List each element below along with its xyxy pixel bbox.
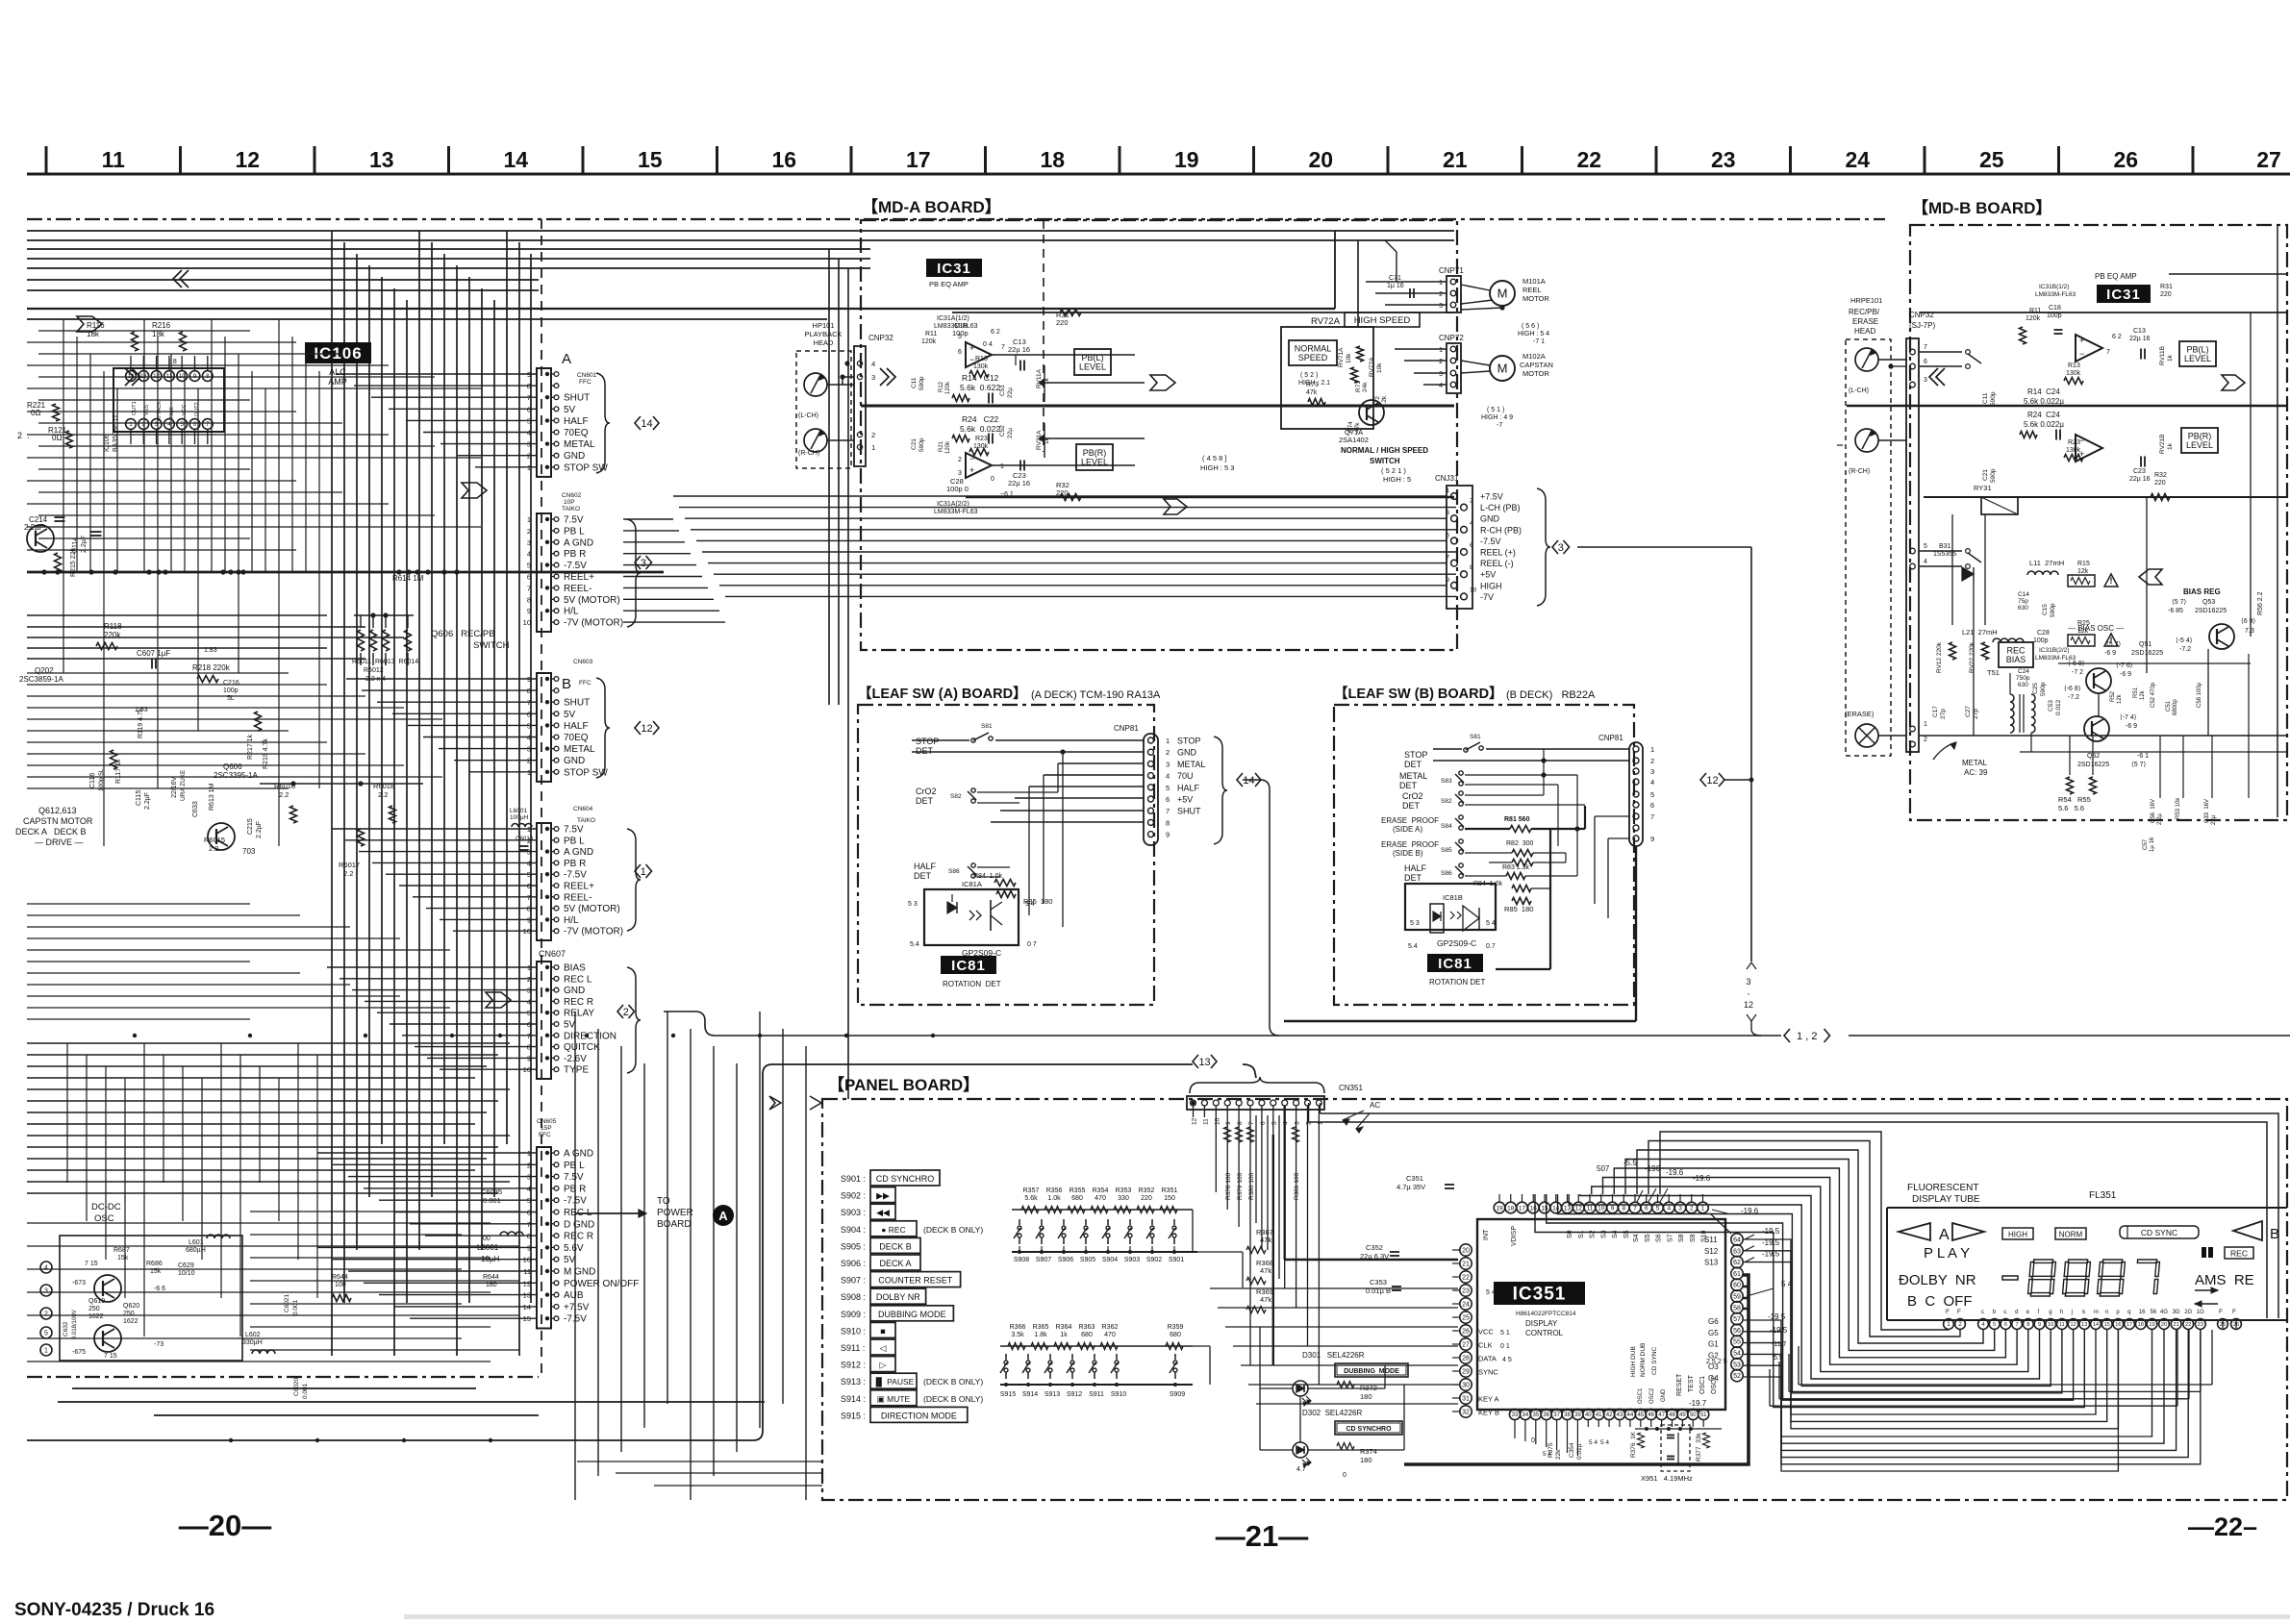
svg-text:47: 47 xyxy=(1658,1412,1665,1418)
svg-text:R6012: R6012 xyxy=(364,667,384,674)
svg-text:!: ! xyxy=(2110,576,2113,586)
svg-text:7: 7 xyxy=(1446,555,1449,562)
wires CNP71/CNP72 feeders xyxy=(1334,231,1336,309)
svg-text:5.6k 0.622: 5.6k 0.622 xyxy=(960,383,1000,392)
wires leaf A routing xyxy=(1058,762,1144,764)
svg-text:R376 1K: R376 1K xyxy=(1630,1431,1637,1458)
resistor row 2 R366..R359 xyxy=(1000,1345,1193,1347)
svg-text:-675: -675 xyxy=(72,1349,86,1356)
svg-text:2 .: 2 . xyxy=(17,431,30,440)
wire nest from right column pins 64-62 xyxy=(1744,1239,2096,1414)
svg-text:5.4: 5.4 xyxy=(910,941,919,948)
svg-text:C351: C351 xyxy=(1406,1174,1423,1183)
svg-text:GND: GND xyxy=(1480,514,1500,524)
svg-text:R12: R12 xyxy=(939,381,944,392)
svg-text:C18: C18 xyxy=(2049,305,2061,312)
svg-text:ĐOLBY NR: ĐOLBY NR xyxy=(1899,1272,1976,1288)
svg-text:( 5 1 ): ( 5 1 ) xyxy=(1487,407,1504,413)
svg-text:R614 1M: R614 1M xyxy=(392,574,424,583)
svg-text:AUB: AUB xyxy=(564,1290,584,1301)
svg-text:3: 3 xyxy=(1295,1121,1301,1125)
svg-text:M101A: M101A xyxy=(1522,277,1546,286)
svg-text:1:83: 1:83 xyxy=(204,647,217,654)
LED D301 xyxy=(1293,1381,1308,1396)
svg-text:2: 2 xyxy=(1439,291,1443,298)
wire bus top-left horizontals xyxy=(27,230,1454,232)
svg-text:S82: S82 xyxy=(1441,798,1452,805)
svg-text:-19.6: -19.6 xyxy=(1666,1168,1684,1177)
svg-text:7 15: 7 15 xyxy=(104,1353,117,1360)
svg-text:(R-CH): (R-CH) xyxy=(1849,468,1870,475)
svg-text:22µ 16: 22µ 16 xyxy=(1008,479,1030,487)
svg-text:R21: R21 xyxy=(939,440,944,452)
svg-text:22: 22 xyxy=(1462,1275,1470,1282)
svg-text:DOLBY NR: DOLBY NR xyxy=(876,1292,920,1302)
box PB(R) LEVEL xyxy=(1076,444,1113,470)
svg-text:F: F xyxy=(1957,1309,1961,1315)
svg-text:-2.6V: -2.6V xyxy=(564,1054,587,1064)
wire mesh upper-left verticals xyxy=(63,319,64,673)
svg-text:-7V: -7V xyxy=(1480,592,1494,602)
svg-text:BIAS REG: BIAS REG xyxy=(2183,587,2221,596)
svg-text:HIGH SPEED: HIGH SPEED xyxy=(1354,315,1411,326)
svg-text:RV21B: RV21B xyxy=(2159,435,2166,454)
svg-text:R377 33k: R377 33k xyxy=(1696,1433,1702,1462)
svg-text:F: F xyxy=(1946,1309,1950,1315)
svg-text:7.3: 7.3 xyxy=(2245,628,2254,635)
svg-text:590p: 590p xyxy=(1990,391,1997,406)
svg-text:HIGH : 5 3: HIGH : 5 3 xyxy=(1200,463,1234,472)
svg-text:14: 14 xyxy=(1552,1205,1560,1212)
svg-text:S81: S81 xyxy=(1470,734,1481,740)
svg-text:S85: S85 xyxy=(1441,847,1452,854)
svg-text:590p: 590p xyxy=(1990,468,1997,483)
signal arrow double right xyxy=(125,368,134,386)
heavy mid rail xyxy=(861,405,1454,408)
svg-text:M GND: M GND xyxy=(564,1267,595,1278)
svg-text:25: 25 xyxy=(1979,147,2004,172)
svg-text:5V: 5V xyxy=(564,1020,576,1031)
svg-text:IC81A: IC81A xyxy=(962,880,982,888)
svg-text:RELAY: RELAY xyxy=(564,1009,594,1019)
svg-text:BIAS: BIAS xyxy=(2006,655,2026,664)
svg-text:R14 C12: R14 C12 xyxy=(962,373,999,383)
svg-text:G6: G6 xyxy=(1708,1317,1719,1326)
svg-text:100p: 100p xyxy=(2033,637,2049,644)
switch row 1 S908..S901 xyxy=(1019,1219,1020,1225)
svg-text:14: 14 xyxy=(641,418,652,430)
op-amp IC351 tag xyxy=(1494,1282,1585,1305)
svg-text:14: 14 xyxy=(503,147,528,172)
svg-text:R11: R11 xyxy=(925,331,937,337)
svg-text:S914: S914 xyxy=(1022,1391,1038,1398)
svg-text:10/10: 10/10 xyxy=(178,1270,195,1277)
wire node12 joins collector xyxy=(1724,779,1751,781)
svg-text:,: , xyxy=(1748,987,1750,996)
svg-text:2.2: 2.2 xyxy=(209,844,218,853)
svg-text:( 4 5 8 ]: ( 4 5 8 ] xyxy=(1202,454,1226,462)
svg-text:10: 10 xyxy=(1470,587,1477,593)
svg-text:1622: 1622 xyxy=(123,1318,138,1325)
svg-text:22µ 6.3V: 22µ 6.3V xyxy=(1360,1252,1389,1261)
svg-text:IC81: IC81 xyxy=(951,958,986,974)
box PB(R) LEVEL (MD-B) xyxy=(2181,428,2218,453)
svg-text:GND: GND xyxy=(564,986,585,996)
svg-text:CNP32: CNP32 xyxy=(868,334,893,342)
svg-text:4: 4 xyxy=(527,550,531,559)
svg-text:S7: S7 xyxy=(1667,1234,1673,1242)
svg-text:R119 4.7k: R119 4.7k xyxy=(138,708,144,738)
svg-text:48: 48 xyxy=(1669,1412,1675,1418)
svg-text:RV72A: RV72A xyxy=(1369,357,1375,377)
svg-text:FFC: FFC xyxy=(579,680,591,687)
svg-text:R51: R51 xyxy=(2133,687,2139,698)
svg-text:40: 40 xyxy=(1585,1412,1592,1418)
svg-text:G1: G1 xyxy=(1708,1340,1719,1349)
svg-text:3: 3 xyxy=(1650,767,1654,776)
svg-text:0 4: 0 4 xyxy=(983,341,993,348)
svg-text:C632: C632 xyxy=(63,1321,69,1337)
svg-text:35: 35 xyxy=(1532,1412,1539,1418)
svg-text:7: 7 xyxy=(2016,1322,2019,1328)
svg-text:R362: R362 xyxy=(1102,1324,1119,1331)
svg-text:2: 2 xyxy=(871,431,875,439)
svg-text:DUBBING MODE: DUBBING MODE xyxy=(1344,1368,1399,1375)
svg-text:S909 :: S909 : xyxy=(841,1310,866,1319)
svg-text:S2: S2 xyxy=(1590,1230,1597,1238)
svg-text:C27: C27 xyxy=(1965,706,1972,717)
svg-text:R378 100: R378 100 xyxy=(1225,1172,1232,1200)
svg-text:120k: 120k xyxy=(921,338,937,345)
svg-text:C11: C11 xyxy=(911,377,918,388)
svg-text:R359: R359 xyxy=(1168,1324,1184,1331)
svg-text:12: 12 xyxy=(1744,1000,1753,1010)
wire display pins baseline xyxy=(1886,1319,1888,1321)
wire nest upper signal lines xyxy=(1637,1150,1983,1343)
svg-text:◁: ◁ xyxy=(880,1343,887,1353)
signal arrow out PB(L) B xyxy=(2222,375,2245,390)
svg-text:6 2: 6 2 xyxy=(2112,334,2122,340)
svg-text:00: 00 xyxy=(483,1236,491,1242)
boundary dash-dot line top xyxy=(27,218,1885,220)
display pause bars + REC box xyxy=(2202,1247,2206,1258)
svg-text:13: 13 xyxy=(2081,1322,2087,1328)
svg-text:19: 19 xyxy=(1496,1205,1503,1212)
svg-text:-6 6: -6 6 xyxy=(154,1286,165,1292)
svg-text:S912: S912 xyxy=(1067,1391,1082,1398)
head R-CH (MD-B) xyxy=(1855,429,1878,452)
svg-text:TO: TO xyxy=(657,1196,670,1207)
svg-text:Q619: Q619 xyxy=(88,1298,105,1305)
svg-text:T51: T51 xyxy=(1987,668,2000,677)
svg-text:HIGH : 2.1: HIGH : 2.1 xyxy=(1298,380,1330,387)
wires heads to CNP32 (MD-B) xyxy=(1878,359,1906,361)
svg-text:630: 630 xyxy=(2018,682,2028,688)
svg-text:DET: DET xyxy=(916,796,934,806)
svg-text:12: 12 xyxy=(1192,1117,1198,1125)
svg-text:STOP SW: STOP SW xyxy=(564,767,608,778)
wire node3 to right and down xyxy=(1577,546,1751,548)
svg-text:DET: DET xyxy=(1399,781,1418,790)
svg-text:HIGH : 5: HIGH : 5 xyxy=(1383,475,1411,484)
svg-text:SYNC: SYNC xyxy=(1478,1368,1498,1377)
svg-text:6: 6 xyxy=(958,349,962,356)
svg-text:DET: DET xyxy=(1404,760,1422,769)
svg-text:33: 33 xyxy=(1512,1412,1519,1418)
svg-text:R6017: R6017 xyxy=(339,861,360,869)
svg-text:+7.5V: +7.5V xyxy=(564,1302,590,1312)
wire vertical bundle left of connector column xyxy=(331,231,333,1356)
svg-text:A GND: A GND xyxy=(564,1149,593,1160)
node 1 brace xyxy=(627,829,641,931)
svg-text:S3: S3 xyxy=(1600,1230,1607,1238)
svg-text:S912 :: S912 : xyxy=(841,1361,866,1370)
svg-text:507: 507 xyxy=(1597,1164,1610,1173)
svg-text:S82: S82 xyxy=(950,793,962,800)
svg-text:56: 56 xyxy=(1733,1328,1741,1335)
svg-text:C51: C51 xyxy=(999,385,1006,396)
svg-text:5.4: 5.4 xyxy=(1408,943,1418,950)
svg-text:GND: GND xyxy=(564,756,585,766)
svg-text:5 3: 5 3 xyxy=(908,901,918,908)
svg-text:150: 150 xyxy=(1164,1195,1175,1202)
svg-text:R644: R644 xyxy=(332,1274,348,1281)
wire opamp2 out xyxy=(992,464,1135,466)
svg-text:▣ MUTE: ▣ MUTE xyxy=(877,1394,911,1404)
REC BIAS box xyxy=(1999,642,2033,667)
svg-text:44: 44 xyxy=(1627,1412,1634,1418)
svg-text:⟨6 9⟩: ⟨6 9⟩ xyxy=(2241,617,2255,625)
svg-text:NORMAL / HIGH SPEED: NORMAL / HIGH SPEED xyxy=(1341,446,1428,455)
svg-text:30: 30 xyxy=(1462,1383,1470,1389)
svg-text:Q612,613: Q612,613 xyxy=(38,806,77,815)
svg-text:4: 4 xyxy=(1650,778,1654,787)
svg-text:590p: 590p xyxy=(2040,682,2047,696)
svg-text:11: 11 xyxy=(102,147,126,172)
svg-text:RV11A: RV11A xyxy=(1036,368,1043,388)
svg-text:7: 7 xyxy=(1633,1205,1637,1212)
svg-text:16: 16 xyxy=(1530,1205,1538,1212)
svg-text:70EQ: 70EQ xyxy=(564,428,589,438)
svg-text:2G: 2G xyxy=(2184,1310,2192,1315)
svg-text:250: 250 xyxy=(88,1306,100,1312)
svg-text:36: 36 xyxy=(1543,1412,1549,1418)
svg-text:R356: R356 xyxy=(1046,1187,1063,1194)
svg-text:R217 1k: R217 1k xyxy=(247,734,254,760)
svg-text:CrO2: CrO2 xyxy=(1402,791,1423,801)
svg-text:1: 1 xyxy=(1701,1205,1705,1212)
op-amp IC31 tag (MD-A) xyxy=(926,259,982,277)
svg-text:【LEAF SW (A) BOARD】: 【LEAF SW (A) BOARD】 xyxy=(858,686,1027,702)
svg-text:3G: 3G xyxy=(2173,1310,2180,1315)
svg-text:26: 26 xyxy=(2113,147,2138,172)
node 13 label xyxy=(1193,1055,1198,1068)
svg-text:1622: 1622 xyxy=(88,1313,104,1320)
svg-text:R379 100: R379 100 xyxy=(1237,1172,1244,1200)
svg-text:R355: R355 xyxy=(1070,1187,1086,1194)
transistor Q53 xyxy=(2209,624,2234,649)
svg-text:RV71A: RV71A xyxy=(1338,347,1345,367)
svg-text:HALF: HALF xyxy=(1177,783,1200,792)
svg-text:47k: 47k xyxy=(1306,389,1318,396)
svg-text:-6 9: -6 9 xyxy=(2126,723,2137,730)
svg-text:26: 26 xyxy=(1462,1329,1470,1336)
svg-text:7.5V: 7.5V xyxy=(564,1172,584,1183)
svg-text:OSC2: OSC2 xyxy=(1649,1387,1655,1404)
display seven-segment digits xyxy=(2027,1260,2055,1296)
wire GND pin2 (B) xyxy=(1433,760,1629,762)
svg-text:C58 100µ: C58 100µ xyxy=(2197,682,2202,708)
svg-text:680µH: 680µH xyxy=(186,1247,206,1254)
svg-text:C57: C57 xyxy=(2143,838,2149,850)
svg-text:31: 31 xyxy=(1462,1396,1470,1403)
svg-text:C633: C633 xyxy=(192,801,199,817)
svg-text:FLUORESCENT: FLUORESCENT xyxy=(1907,1183,1978,1193)
svg-text:9: 9 xyxy=(1446,577,1449,584)
svg-text:CD SYNC: CD SYNC xyxy=(2141,1228,2177,1237)
svg-text:g: g xyxy=(2049,1310,2051,1315)
svg-text:▷: ▷ xyxy=(880,1361,887,1370)
svg-text:S1: S1 xyxy=(1578,1230,1585,1238)
svg-text:-6 1: -6 1 xyxy=(2137,753,2149,760)
svg-text:LEVEL: LEVEL xyxy=(2186,440,2213,450)
wires CN607 left xyxy=(327,966,537,968)
svg-text:HRPE101: HRPE101 xyxy=(1850,296,1882,305)
op-amp IC31A 1/2 xyxy=(966,342,992,367)
svg-text:39: 39 xyxy=(1574,1412,1581,1418)
erase head X xyxy=(1855,724,1878,747)
svg-text:C51: C51 xyxy=(2166,700,2172,712)
svg-text:4: 4 xyxy=(1924,559,1927,565)
svg-text:6: 6 xyxy=(527,573,531,582)
svg-text:5V: 5V xyxy=(564,710,576,720)
svg-text:( 5 6 ): ( 5 6 ) xyxy=(1522,323,1539,330)
svg-text:1µ 16: 1µ 16 xyxy=(1387,283,1404,289)
resistor extra row (B) xyxy=(1512,860,1533,866)
svg-text:R6015: R6015 xyxy=(204,836,225,844)
svg-text:53: 53 xyxy=(1733,1362,1741,1368)
display minus sign xyxy=(2002,1276,2018,1280)
svg-text:9: 9 xyxy=(1166,831,1170,839)
svg-text:HALF: HALF xyxy=(564,721,589,732)
transistor Q619 xyxy=(94,1325,121,1352)
head R-CH xyxy=(804,429,827,452)
svg-text:11: 11 xyxy=(1587,1205,1594,1212)
svg-text:100p 0: 100p 0 xyxy=(946,485,969,493)
svg-text:▶▶: ▶▶ xyxy=(876,1191,890,1201)
svg-text:S915: S915 xyxy=(1000,1391,1016,1398)
svg-text:R687: R687 xyxy=(113,1247,130,1254)
svg-text:(DECK B ONLY): (DECK B ONLY) xyxy=(923,1225,983,1235)
op-amp IC81 tag (A) xyxy=(941,956,996,974)
svg-text:QUITCK: QUITCK xyxy=(564,1042,600,1053)
svg-text:R118: R118 xyxy=(104,622,122,631)
wires leaf B verticals xyxy=(1543,749,1545,795)
svg-text:C21: C21 xyxy=(911,438,918,450)
svg-text:d: d xyxy=(2015,1310,2018,1315)
svg-text:CD SYNC: CD SYNC xyxy=(1651,1346,1658,1375)
svg-text:7: 7 xyxy=(1248,1121,1255,1125)
svg-text:DECK A: DECK A xyxy=(879,1259,911,1268)
svg-text:POWER ON/OFF: POWER ON/OFF xyxy=(564,1279,639,1289)
svg-text:3: 3 xyxy=(1678,1205,1682,1212)
IC351 top pins 19-1 xyxy=(1494,1202,1505,1213)
svg-text:27: 27 xyxy=(1462,1342,1470,1349)
svg-text:Q51: Q51 xyxy=(2139,641,2152,648)
wire CNPB1 pin9 heavy drop xyxy=(1635,846,1637,1021)
svg-text:7: 7 xyxy=(527,584,531,592)
boundary dash-dot bottom-left xyxy=(27,1376,539,1378)
transistor Q52 xyxy=(2084,716,2109,741)
svg-text:70U: 70U xyxy=(1177,771,1194,781)
svg-text:C52: C52 xyxy=(999,425,1006,437)
svg-text:+: + xyxy=(969,343,974,353)
svg-text:DISPLAY: DISPLAY xyxy=(1525,1319,1558,1328)
svg-text:PB L: PB L xyxy=(564,836,585,846)
svg-text:CN604: CN604 xyxy=(573,806,593,812)
svg-text:REEL (+): REEL (+) xyxy=(1480,548,1516,558)
svg-text:P L A Y: P L A Y xyxy=(1924,1245,1970,1262)
svg-text:R81 560: R81 560 xyxy=(1504,816,1530,823)
svg-text:28: 28 xyxy=(1462,1356,1470,1362)
svg-text:R686: R686 xyxy=(146,1261,163,1267)
junction dots on buses xyxy=(133,1034,137,1037)
svg-text:L11 27mH: L11 27mH xyxy=(2029,559,2064,567)
svg-text:D GND: D GND xyxy=(564,1219,594,1230)
svg-text:SHUT: SHUT xyxy=(564,698,590,709)
svg-text:64: 64 xyxy=(1733,1237,1741,1244)
svg-text:⟨-5 4⟩: ⟨-5 4⟩ xyxy=(2176,637,2193,644)
svg-text:SONY-04235 / Druck 16: SONY-04235 / Druck 16 xyxy=(14,1600,214,1619)
svg-text:L601: L601 xyxy=(189,1239,204,1246)
svg-text:5 4: 5 4 xyxy=(1600,1439,1609,1446)
svg-text:Q606 REC/PB: Q606 REC/PB xyxy=(431,629,495,639)
svg-text:-673: -673 xyxy=(72,1280,86,1287)
dashed box crystal xyxy=(1661,1425,1690,1471)
svg-text:S905: S905 xyxy=(1080,1257,1095,1263)
svg-text:S904 :: S904 : xyxy=(841,1225,866,1235)
svg-text:⟨5 7⟩: ⟨5 7⟩ xyxy=(2172,598,2186,606)
svg-text:590p: 590p xyxy=(919,376,925,390)
svg-text:1: 1 xyxy=(1000,463,1004,470)
svg-text:DATA: DATA xyxy=(1478,1355,1497,1363)
svg-text:—21—: —21— xyxy=(1216,1519,1308,1553)
svg-text:10k: 10k xyxy=(1376,362,1383,373)
svg-text:630: 630 xyxy=(2018,605,2028,612)
svg-text:C71: C71 xyxy=(1389,275,1401,282)
svg-text:13: 13 xyxy=(1564,1205,1572,1212)
svg-text:METAL: METAL xyxy=(564,439,595,450)
svg-text:+7.5V: +7.5V xyxy=(1480,492,1503,502)
svg-text:1k: 1k xyxy=(2167,354,2174,362)
svg-text:ROTATION DET: ROTATION DET xyxy=(943,980,1001,988)
svg-text:0 7: 0 7 xyxy=(1027,941,1037,948)
svg-text:25: 25 xyxy=(1462,1315,1470,1322)
svg-text:2: 2 xyxy=(1924,737,1927,743)
transistor Q620 xyxy=(94,1275,121,1302)
wires AC pair to nest xyxy=(1320,1103,1321,1113)
svg-text:C52 470p: C52 470p xyxy=(2151,682,2156,708)
IC351 right pins 64-52 xyxy=(1731,1234,1743,1245)
svg-text:12: 12 xyxy=(2070,1322,2076,1328)
svg-text:R54 R55: R54 R55 xyxy=(2058,795,2091,804)
svg-text:HIGH DUB: HIGH DUB xyxy=(1630,1346,1637,1377)
svg-text:(DECK B ONLY): (DECK B ONLY) xyxy=(923,1377,983,1387)
svg-text:C11: C11 xyxy=(1982,392,1989,404)
svg-text:HEAD: HEAD xyxy=(814,338,834,347)
svg-text:m: m xyxy=(2094,1310,2099,1315)
svg-text:4: 4 xyxy=(871,360,875,368)
